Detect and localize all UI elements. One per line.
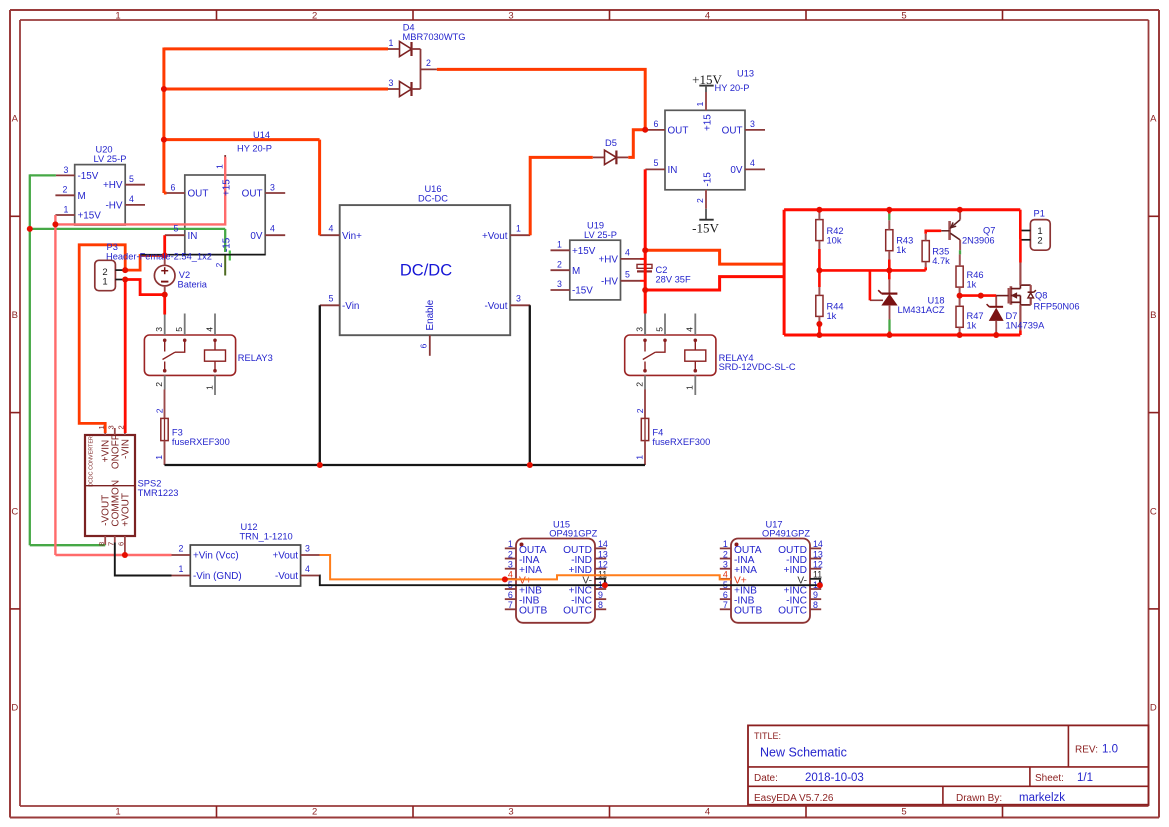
svg-text:2: 2 xyxy=(695,198,705,203)
RELAY4 pin 1 stub xyxy=(694,375,696,395)
wire Q7 collector to R46 with green stub xyxy=(959,250,961,254)
connector P3 Header-Female xyxy=(95,260,116,290)
svg-text:M: M xyxy=(78,191,86,202)
wire R42 to R44 xyxy=(818,241,820,249)
svg-text:U13: U13 xyxy=(737,69,754,79)
wire V+ rail U15 to U17 xyxy=(505,575,731,579)
frame ticks top xyxy=(216,10,218,20)
svg-text:4: 4 xyxy=(685,327,695,332)
op-amp U15 OP491GPZ box xyxy=(516,539,595,623)
resistor R43 body xyxy=(886,230,893,251)
wire vertical D4 anodes to U14 OUT xyxy=(162,48,165,194)
svg-text:2: 2 xyxy=(557,259,562,269)
svg-text:2: 2 xyxy=(63,185,68,195)
svg-text:B: B xyxy=(12,310,18,321)
svg-text:4: 4 xyxy=(705,807,710,818)
U17 pin 12 +IND xyxy=(810,568,821,570)
border frame xyxy=(10,9,1159,11)
svg-text:IN: IN xyxy=(668,165,678,176)
U17 pin 2 -INA xyxy=(720,558,731,560)
RELAY3 pin 1 stub xyxy=(214,375,216,395)
svg-text:C: C xyxy=(11,506,18,517)
U17 pin 3 +INA xyxy=(720,568,731,570)
svg-text:U16: U16 xyxy=(424,184,441,194)
diode D5 xyxy=(605,150,617,164)
wire +15V down to U12 supply xyxy=(54,224,56,555)
U13 pin 4 0V stub xyxy=(745,168,765,170)
U17 pin 8 OUTC xyxy=(810,608,821,610)
wire ground bus F3 to F4 xyxy=(165,464,646,466)
svg-text:TITLE:: TITLE: xyxy=(754,731,781,741)
svg-text:4: 4 xyxy=(270,224,275,234)
wire green U20 -15V rail xyxy=(30,174,56,176)
U15 pin 5 +INB xyxy=(505,588,516,590)
svg-text:+15V: +15V xyxy=(78,211,102,222)
svg-text:3: 3 xyxy=(270,182,275,192)
svg-text:0V: 0V xyxy=(250,231,262,242)
svg-text:OUTC: OUTC xyxy=(778,606,807,617)
svg-text:OUTC: OUTC xyxy=(563,606,592,617)
svg-text:1k: 1k xyxy=(827,311,837,321)
wire +15V from U20 pin1 to U14 pin1 xyxy=(55,157,225,224)
U14 pin 1 +15 top stub xyxy=(224,155,226,175)
resistor R47 body xyxy=(956,306,963,327)
wire branch to U16 Vin+ xyxy=(164,138,320,141)
D4 cathode join and pin 2 stub xyxy=(412,48,421,50)
wire gate node row xyxy=(960,294,997,297)
RELAY3 switch contact xyxy=(163,339,167,343)
svg-text:-Vout: -Vout xyxy=(275,571,298,582)
IC U16 DC-DC box xyxy=(340,205,511,335)
op-amp U17 OP491GPZ box xyxy=(731,539,810,623)
svg-text:-15V: -15V xyxy=(78,171,99,182)
transistor Q8 RFP50N06 xyxy=(1008,288,1010,304)
svg-text:M: M xyxy=(572,266,580,277)
U20 pin 2 M stub xyxy=(55,194,74,196)
svg-text:D: D xyxy=(11,703,18,714)
wire black under U14 xyxy=(140,254,265,256)
svg-text:REV:: REV: xyxy=(1075,745,1098,756)
svg-text:5: 5 xyxy=(901,10,906,21)
svg-text:-15V: -15V xyxy=(572,286,593,297)
RELAY4 pin 4 stub xyxy=(694,314,696,336)
Q8 body diode branch xyxy=(1020,284,1030,286)
wire U16 -Vout to ground bus xyxy=(529,305,531,465)
U14 pin 2 -15 bottom stub xyxy=(224,255,226,276)
svg-text:markelzk: markelzk xyxy=(1019,792,1065,804)
U12 pin 2 +Vin stub xyxy=(172,554,191,556)
U19 pin 5 -HV stub xyxy=(621,280,641,282)
svg-text:1: 1 xyxy=(115,807,120,818)
U13 pin 5 IN stub xyxy=(645,168,665,170)
svg-text:3: 3 xyxy=(634,327,644,332)
U16 pin 3 -Vout stub xyxy=(510,304,530,306)
svg-text:4: 4 xyxy=(625,248,630,258)
svg-text:11: 11 xyxy=(813,570,822,580)
svg-text:6: 6 xyxy=(723,590,728,600)
svg-text:C2: C2 xyxy=(656,265,668,275)
resistor R42 body xyxy=(816,220,823,241)
U14 pin 6 OUT stub xyxy=(165,192,185,194)
U19 pin 3 -15V stub xyxy=(551,289,570,291)
U17 pin 10 +INC xyxy=(810,588,821,590)
svg-text:2: 2 xyxy=(154,408,164,413)
svg-text:Q7: Q7 xyxy=(983,226,995,236)
svg-text:1: 1 xyxy=(115,10,120,21)
svg-text:1N4739A: 1N4739A xyxy=(1006,321,1046,331)
svg-text:4: 4 xyxy=(329,224,334,234)
power flag +15V at U13 pin1 xyxy=(699,85,713,87)
svg-text:+15V: +15V xyxy=(572,246,596,257)
U15 pin 8 OUTC xyxy=(595,608,606,610)
U16 pin 1 +Vout stub xyxy=(510,234,530,236)
U20 pin 4 -HV stub xyxy=(125,204,145,206)
wire P3 pin1 to V2 minus xyxy=(125,280,165,295)
wire P3 pin2 to V2 plus xyxy=(125,256,165,271)
svg-text:RFP50N06: RFP50N06 xyxy=(1034,302,1080,312)
svg-text:D5: D5 xyxy=(605,138,617,148)
svg-text:3: 3 xyxy=(557,279,562,289)
svg-text:OUTB: OUTB xyxy=(734,606,763,617)
svg-text:-HV: -HV xyxy=(601,277,618,288)
svg-text:2: 2 xyxy=(117,425,126,429)
svg-text:A: A xyxy=(12,114,19,125)
svg-text:6: 6 xyxy=(508,590,513,600)
fuse F4 body xyxy=(644,390,646,419)
svg-text:3: 3 xyxy=(508,10,513,21)
U16 pin 6 Enable stub xyxy=(429,335,431,356)
U15 pin 9 -INC xyxy=(595,598,606,600)
U14 pin 3 OUT stub xyxy=(265,192,285,194)
svg-text:OP491GPZ: OP491GPZ xyxy=(549,528,597,538)
wire R46 bottom to gate node xyxy=(959,287,961,295)
svg-text:2: 2 xyxy=(635,408,645,413)
U17 pin 13 -IND xyxy=(810,558,821,560)
wire bottom rail of regulator block xyxy=(784,334,1020,337)
svg-text:1: 1 xyxy=(204,385,214,390)
svg-text:Header-Female-2.54_1x2: Header-Female-2.54_1x2 xyxy=(106,252,212,262)
relay RELAY4 box xyxy=(625,335,716,375)
svg-text:1: 1 xyxy=(634,455,644,460)
U15 pin 13 -IND xyxy=(595,558,606,560)
U14 pin 5 IN stub xyxy=(165,234,185,236)
svg-text:U20: U20 xyxy=(96,145,113,155)
SPS2 top pins 1 3 2 xyxy=(104,428,106,435)
U20 pin 1 +15V stub xyxy=(55,214,74,216)
svg-text:SRD-12VDC-SL-C: SRD-12VDC-SL-C xyxy=(719,362,796,372)
svg-text:3: 3 xyxy=(723,560,728,570)
U16 pin 4 Vin+ stub xyxy=(320,234,340,236)
wire P3 pin2 to SPS2 pin1 (orange) xyxy=(79,245,125,433)
svg-text:2: 2 xyxy=(1037,236,1042,247)
U19 pin 4 +HV stub xyxy=(621,258,641,260)
svg-text:1: 1 xyxy=(215,164,225,169)
svg-text:12: 12 xyxy=(813,560,823,570)
wire C2 top node to sense block upper xyxy=(645,250,784,264)
wire P3 pin1 down to SPS2 pin2 xyxy=(124,280,127,434)
svg-text:-HV: -HV xyxy=(105,201,122,212)
svg-text:1: 1 xyxy=(64,204,69,214)
svg-text:2018-10-03: 2018-10-03 xyxy=(805,772,864,784)
svg-text:3: 3 xyxy=(750,119,755,129)
U17 pin 1 OUTA xyxy=(720,547,731,549)
svg-text:A: A xyxy=(1150,114,1157,125)
svg-text:-15: -15 xyxy=(702,172,713,187)
transistor Q7 2N3906 xyxy=(948,221,951,240)
diode D4 upper half xyxy=(400,42,412,57)
wire U19 pin5 to node xyxy=(640,280,645,282)
RELAY4 coil xyxy=(694,340,696,350)
U15 pin 1 OUTA xyxy=(505,547,516,549)
svg-text:LV 25-P: LV 25-P xyxy=(94,154,127,164)
svg-text:OUT: OUT xyxy=(668,125,689,136)
resistor R44 body xyxy=(816,295,823,316)
svg-text:DCDC CONVERTER: DCDC CONVERTER xyxy=(89,436,95,487)
svg-text:5: 5 xyxy=(174,327,184,332)
svg-text:5: 5 xyxy=(654,158,659,168)
wire top rail of regulator block xyxy=(784,208,1020,211)
diode D4 lower half xyxy=(400,82,412,97)
U17 pin 6 -INB xyxy=(720,598,731,600)
svg-text:Bateria: Bateria xyxy=(178,280,208,290)
wire U12 +Vout to op-amp V+ rail xyxy=(320,555,505,579)
svg-text:2: 2 xyxy=(723,549,728,559)
svg-text:DC/DC: DC/DC xyxy=(400,261,452,279)
U14 pin 4 0V stub xyxy=(265,234,285,236)
IC U20 LV 25-P box xyxy=(75,165,126,225)
wire V- jog U17 pin11 xyxy=(819,580,821,586)
U20 pin 5 +HV stub xyxy=(125,184,145,186)
svg-text:3: 3 xyxy=(516,294,521,304)
wire R43 bottom to node xyxy=(888,251,890,260)
svg-text:2: 2 xyxy=(154,382,164,387)
svg-text:3: 3 xyxy=(154,327,164,332)
svg-text:14: 14 xyxy=(598,539,608,549)
svg-text:EasyEDA V5.7.26: EasyEDA V5.7.26 xyxy=(754,793,834,804)
svg-text:OUT: OUT xyxy=(188,189,209,200)
resistor R46 body xyxy=(956,266,963,287)
svg-text:fuseRXEF300: fuseRXEF300 xyxy=(652,437,710,447)
zener diode D7 1N4739A xyxy=(995,296,997,307)
power flag -15V at U13 pin2 xyxy=(699,219,713,221)
svg-text:RELAY3: RELAY3 xyxy=(238,353,273,363)
svg-text:1k: 1k xyxy=(896,245,906,255)
svg-text:P1: P1 xyxy=(1034,209,1045,219)
svg-text:-Vin (GND): -Vin (GND) xyxy=(193,571,242,582)
svg-text:14: 14 xyxy=(813,539,823,549)
svg-text:New Schematic: New Schematic xyxy=(760,746,847,760)
svg-text:3: 3 xyxy=(107,425,116,429)
svg-text:1: 1 xyxy=(102,277,107,288)
svg-text:4: 4 xyxy=(129,194,134,204)
svg-text:7: 7 xyxy=(107,542,116,546)
svg-text:6: 6 xyxy=(117,542,126,546)
wire SPS2 pin7 to U12 pin1 xyxy=(115,543,172,576)
IC U19 LV 25-P box xyxy=(570,240,621,300)
svg-text:1: 1 xyxy=(723,539,728,549)
U17 pin 9 -INC xyxy=(810,598,821,600)
wire left vertical of regulator block xyxy=(783,210,786,335)
svg-text:3: 3 xyxy=(64,165,69,175)
svg-text:3: 3 xyxy=(508,807,513,818)
svg-text:U14: U14 xyxy=(253,130,270,140)
svg-text:28V 35F: 28V 35F xyxy=(656,275,691,285)
svg-text:-Vout: -Vout xyxy=(484,301,507,312)
IC U14 HY 20-P box xyxy=(185,175,265,255)
U12 pin 3 +Vout stub xyxy=(301,554,320,556)
RELAY3 pin 5 stub xyxy=(184,314,186,336)
wire Q8 source to bottom rail xyxy=(1019,305,1021,331)
RELAY3 coil xyxy=(214,340,216,350)
svg-text:6: 6 xyxy=(654,119,659,129)
wire D5 cathode to node xyxy=(628,130,645,158)
RELAY3 pin 4 stub xyxy=(214,314,216,336)
regulator U18 LM431ACZ xyxy=(888,279,890,293)
wire R43 top with green stub xyxy=(888,210,891,214)
wire P1 pin2 to Q8 drain xyxy=(1019,240,1022,263)
svg-text:D: D xyxy=(1150,703,1157,714)
svg-text:+HV: +HV xyxy=(599,255,619,266)
frame ticks bottom xyxy=(216,806,218,818)
svg-text:7: 7 xyxy=(723,600,728,610)
RELAY4 switch contact xyxy=(643,339,647,343)
svg-text:2: 2 xyxy=(214,263,224,268)
RELAY4 pin 2 stub xyxy=(644,375,646,389)
IC U12 TRN_1-1210 box xyxy=(190,545,300,586)
U13 pin 2 -15 bottom stub xyxy=(705,190,707,209)
svg-text:8: 8 xyxy=(598,600,603,610)
svg-text:V2: V2 xyxy=(179,270,190,280)
svg-text:1: 1 xyxy=(695,102,705,107)
svg-text:Drawn By:: Drawn By: xyxy=(956,793,1002,804)
svg-text:5: 5 xyxy=(174,224,179,234)
frame ticks left xyxy=(10,215,20,217)
svg-text:3: 3 xyxy=(305,544,310,554)
svg-text:-15V: -15V xyxy=(692,221,719,236)
wire U16 +Vout to D5 anode xyxy=(530,157,593,235)
svg-text:SPS2: SPS2 xyxy=(138,479,162,489)
wire R35 top to Q7 base xyxy=(925,234,927,241)
svg-text:Sheet:: Sheet: xyxy=(1035,773,1064,784)
svg-text:+15: +15 xyxy=(702,114,713,131)
svg-text:4: 4 xyxy=(723,570,728,580)
connector P1 xyxy=(1030,220,1050,251)
U17 pin 14 OUTD xyxy=(810,547,821,549)
capacitor C2 28V 35F xyxy=(644,259,646,265)
svg-text:1.0: 1.0 xyxy=(1102,744,1118,756)
svg-text:Q8: Q8 xyxy=(1035,291,1047,301)
svg-text:+Vout: +Vout xyxy=(482,231,508,242)
RELAY3 pin 3 stub xyxy=(164,314,166,336)
svg-text:6: 6 xyxy=(418,344,428,349)
svg-text:+15: +15 xyxy=(222,179,233,196)
svg-text:2: 2 xyxy=(312,807,317,818)
svg-text:+VOUT: +VOUT xyxy=(120,493,131,527)
U16 pin 5 -Vin stub xyxy=(320,304,340,306)
svg-text:-Vin: -Vin xyxy=(342,301,359,312)
svg-text:5: 5 xyxy=(625,269,630,279)
svg-text:DC-DC: DC-DC xyxy=(418,194,448,204)
U17 pin 7 OUTB xyxy=(720,608,731,610)
svg-text:4: 4 xyxy=(204,327,214,332)
junction dots xyxy=(161,86,167,92)
svg-text:9: 9 xyxy=(813,590,818,600)
wire green to U14 -15 pin 2 xyxy=(30,228,225,230)
wire green to SPS2 pin 8 xyxy=(30,544,105,546)
wire U13 IN down to C2 and RELAY4 xyxy=(644,169,647,313)
svg-text:2N3906: 2N3906 xyxy=(962,235,995,245)
wire U18 ref drop xyxy=(869,270,872,300)
svg-text:IN: IN xyxy=(188,231,198,242)
U15 pin 14 OUTD xyxy=(595,547,606,549)
wire D4 anode 2 from junction xyxy=(164,88,388,91)
svg-text:2: 2 xyxy=(312,10,317,21)
svg-text:5: 5 xyxy=(901,807,906,818)
svg-text:1: 1 xyxy=(179,564,184,574)
svg-text:5: 5 xyxy=(129,174,134,184)
svg-text:1: 1 xyxy=(516,224,521,234)
wire P1 pin1/pin2 vertical xyxy=(1019,210,1022,240)
svg-text:+HV: +HV xyxy=(103,180,123,191)
U12 pin 1 -Vin stub xyxy=(172,575,191,577)
U15 pin 10 +INC xyxy=(595,588,606,590)
svg-text:OUTB: OUTB xyxy=(519,606,548,617)
svg-text:1/1: 1/1 xyxy=(1077,772,1093,784)
svg-text:2: 2 xyxy=(426,58,431,68)
svg-text:13: 13 xyxy=(813,549,823,559)
wire D4 output to U13 OUT xyxy=(437,69,645,129)
wire U19 pin4 to node xyxy=(640,258,645,260)
svg-text:4: 4 xyxy=(305,564,310,574)
U17 pin 4 V+ xyxy=(720,578,731,580)
IC U13 HY 20-P box xyxy=(665,110,745,190)
U12 pin 4 -Vout stub xyxy=(301,575,320,577)
svg-text:1: 1 xyxy=(154,455,164,460)
U15 pin 2 -INA xyxy=(505,558,516,560)
relay RELAY3 box xyxy=(144,335,235,375)
svg-text:10k: 10k xyxy=(827,235,842,245)
U15 pin 7 OUTB xyxy=(505,608,516,610)
wire green stub marker at U14 pin2 xyxy=(229,251,231,261)
U15 pin 3 +INA xyxy=(505,568,516,570)
frame ticks right xyxy=(1149,215,1160,217)
svg-text:1: 1 xyxy=(97,425,106,429)
U20 pin 3 -15V stub xyxy=(56,174,75,176)
svg-text:C: C xyxy=(1150,506,1157,517)
U15 pin 11 V- xyxy=(595,578,606,580)
svg-text:HY 20-P: HY 20-P xyxy=(715,83,750,93)
svg-text:U19: U19 xyxy=(587,220,604,230)
RELAY4 pin 3 stub xyxy=(644,314,646,336)
wire R47 bottom xyxy=(959,327,961,335)
voltage source V2 Bateria xyxy=(154,265,175,286)
module SPS2 TMR1223 box xyxy=(85,435,135,536)
U17 pin 5 +INB xyxy=(720,588,731,590)
svg-text:1: 1 xyxy=(508,539,513,549)
svg-text:HY 20-P: HY 20-P xyxy=(237,143,272,153)
wire R35 bottom xyxy=(925,262,927,268)
wire V2 plus to U14 IN xyxy=(163,235,166,255)
svg-text:0V: 0V xyxy=(730,165,742,176)
wire U16 -Vin to ground bus xyxy=(319,305,321,465)
U15 pin 4 V+ xyxy=(505,578,516,580)
U13 pin 3 OUT stub xyxy=(745,129,765,131)
svg-text:LV 25-P: LV 25-P xyxy=(584,230,617,240)
wire U12 -Vout to op-amp V- rail xyxy=(320,576,820,586)
wire C2 bottom node to sense block lower xyxy=(645,277,784,290)
wire node row R42-R44 to R35 xyxy=(819,269,925,272)
svg-text:Enable: Enable xyxy=(425,299,436,330)
